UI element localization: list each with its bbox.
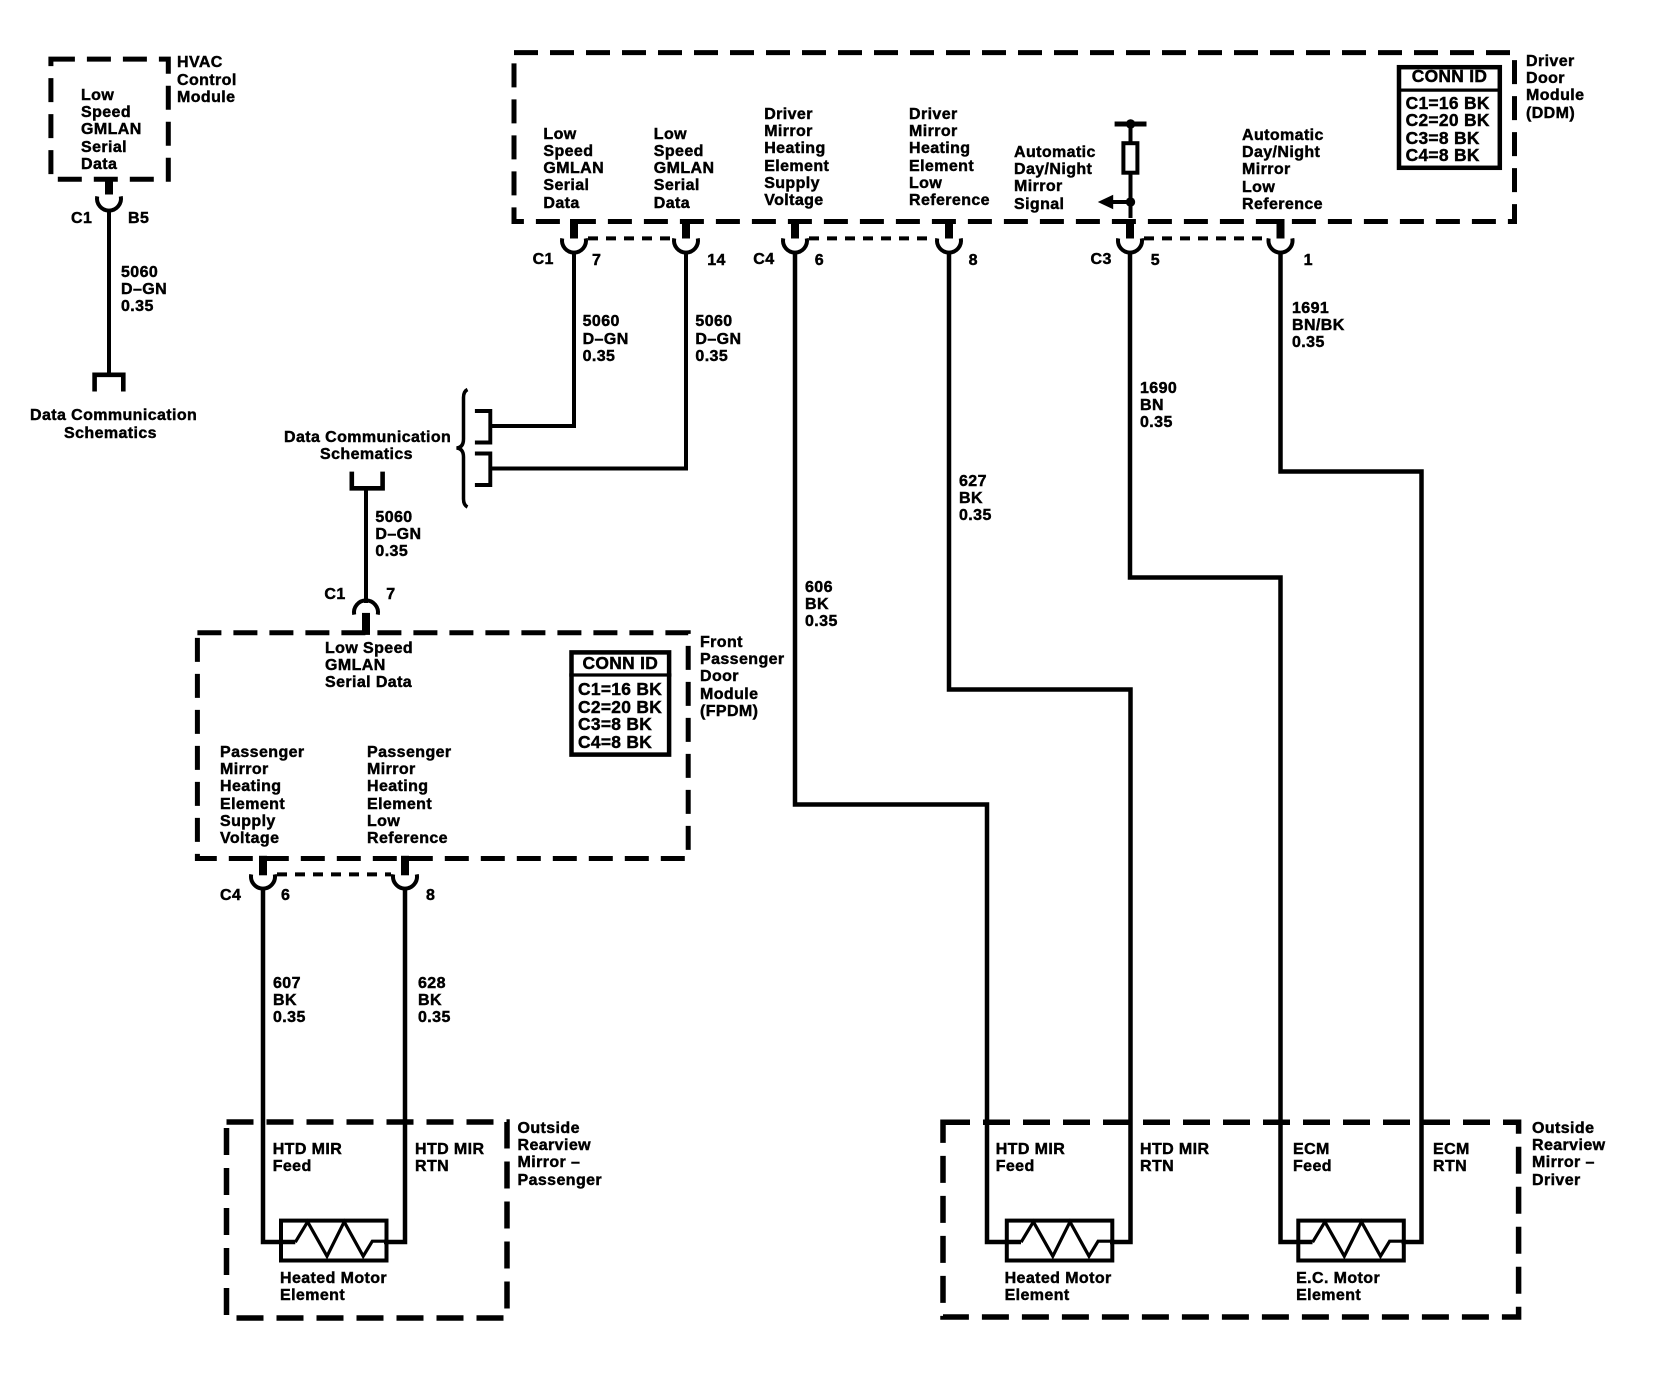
wire 5060 D-GN from off-page symbol to FPDM C1-7 [364, 490, 368, 603]
Outside Rearview Mirror - Passenger title [518, 1120, 603, 1189]
driver mirror label HTD MIR RTN [1140, 1141, 1209, 1176]
FPDM CONN ID title [569, 655, 671, 673]
DDM pin label 14 [707, 252, 726, 269]
wire label 627 BK 0.35 [959, 473, 992, 525]
DDM pin label C4 [753, 251, 774, 268]
wire label 5060 D-GN 0.35 (DDM C1-7) [583, 313, 629, 365]
E.C. motor element (driver) zigzag [1313, 1222, 1406, 1256]
wire from resistor to signal junction [1129, 172, 1133, 218]
passenger mirror label HTD MIR RTN [415, 1141, 484, 1176]
DDM internal label: Low Speed GMLAN Serial Data (C1-14) [654, 126, 715, 212]
passenger mirror label HTD MIR Feed [273, 1141, 342, 1176]
FPDM pin label C1 [324, 586, 345, 603]
HVAC connector C1 pin B5 arc [97, 196, 121, 210]
bracket terminal 2 (to DDM C1-14) [475, 454, 490, 486]
Heated Motor Element label (driver) [1005, 1270, 1112, 1305]
DDM pin label C1 [533, 251, 554, 268]
DDM pin label 8 [969, 252, 978, 269]
wire 607 BK from FPDM C4-6 to passenger mirror HTD MIR Feed [263, 887, 295, 1242]
DDM CONN ID title [1397, 68, 1502, 86]
FPDM title: Front Passenger Door Module (FPDM) [700, 634, 785, 720]
HVAC Control Module title [177, 54, 237, 106]
FPDM internal label: Passenger Mirror Heating Element Low Reference [367, 744, 452, 848]
wire 606 BK from DDM C4-6 to driver mirror HTD MIR Feed [795, 251, 1021, 1242]
driver mirror label ECM RTN [1433, 1141, 1470, 1176]
DDM pin label 1 [1304, 252, 1313, 269]
DDM connector C1 body dashed line [588, 236, 670, 240]
FPDM pin label 8 [426, 887, 435, 904]
Outside Rearview Mirror - Passenger box (dashed) [227, 1122, 508, 1318]
FPDM connector C4 body dashed line [277, 872, 391, 876]
DDM connector C3 pin 1 stub [1277, 219, 1285, 239]
junction dot at mirror signal tap [1126, 197, 1135, 206]
FPDM pin label 6 [281, 887, 290, 904]
wire 5060 D-GN from DDM C1-14 to bracket 2 [491, 251, 687, 469]
DDM title: Driver Door Module (DDM) [1526, 53, 1584, 122]
off-page symbol (Data Communication Schematics, left) [95, 375, 124, 392]
driver mirror label HTD MIR Feed [996, 1141, 1065, 1176]
E.C. Motor Element label (driver) [1296, 1270, 1380, 1305]
DDM connector C4 pin 6 stub [791, 219, 799, 239]
FPDM connector C1 pin 7 stub [362, 613, 370, 635]
DDM internal label: Automatic Day/Night Mirror Low Reference [1242, 127, 1324, 213]
DDM connector C3 pin 5 stub [1126, 219, 1134, 239]
wire 1691 BN/BK from DDM C3-1 to driver mirror ECM RTN [1281, 251, 1422, 1242]
DDM connector C3 pin 1 arc [1269, 238, 1293, 252]
DDM connector C3 pin 5 arc [1118, 238, 1142, 252]
DDM CONN ID table frame [1397, 67, 1502, 168]
bracket terminal 1 (to DDM C1-7) [475, 411, 490, 443]
DDM internal label: Automatic Day/Night Mirror Signal [1014, 144, 1096, 213]
Driver Door Module (DDM) box (dashed) [514, 53, 1515, 222]
DDM connector C1 pin 7 stub [570, 219, 578, 239]
DDM internal label: Driver Mirror Heating Element Low Reference [909, 106, 990, 210]
DDM connector C1 pin 14 stub [682, 219, 690, 239]
Data Communication Schematics label (left) [30, 407, 191, 442]
FPDM pin label 7 [386, 586, 395, 603]
resistor (auto day/night mirror) in DDM [1123, 143, 1137, 173]
Heated Motor Element label (passenger) [280, 1270, 387, 1305]
wire label 5060 D-GN 0.35 (FPDM) [375, 509, 421, 561]
FPDM connector C4 pin 8 arc [393, 874, 417, 888]
DDM internal label: Low Speed GMLAN Serial Data (C1-7) [543, 126, 604, 212]
junction dot on node bar [1126, 119, 1135, 128]
E.C. motor element (driver) box [1298, 1221, 1404, 1261]
wire 1690 BN from DDM C3-5 to driver mirror ECM Feed [1130, 251, 1313, 1242]
DDM pin label 7 [592, 252, 601, 269]
HVAC pin label C1 [71, 210, 92, 227]
DDM connector C4 pin 8 stub [945, 219, 953, 239]
FPDM internal label: Low Speed GMLAN Serial Data [325, 640, 413, 692]
wire from node bar to resistor [1129, 126, 1133, 143]
mirror signal arrow line [1110, 200, 1131, 204]
wire 627 BK from DDM C4-8 to driver mirror HTD MIR RTN [949, 251, 1131, 1242]
DDM connector C3 body dashed line [1144, 236, 1267, 240]
DDM pin label 6 [815, 252, 824, 269]
DDM connector C1 pin 14 arc [674, 238, 698, 252]
DDM internal node bar [1115, 122, 1147, 127]
HVAC connector C1 pin B5 stub [105, 179, 113, 195]
wire 628 BK from FPDM C4-8 to passenger mirror HTD MIR RTN [384, 887, 405, 1242]
FPDM internal label: Passenger Mirror Heating Element Supply Voltage [220, 744, 305, 848]
Data Communication Schematics label (center) [284, 429, 449, 464]
heated motor element (driver) zigzag [1021, 1222, 1114, 1256]
Front Passenger Door Module (FPDM) box (dashed) [197, 633, 688, 859]
HVAC internal label: Low Speed GMLAN Serial Data [81, 87, 142, 173]
wire 5060 D-GN from DDM C1-7 to bracket 1 [491, 251, 575, 426]
wire label 606 BK 0.35 [805, 579, 838, 631]
HVAC Control Module box (dashed) [51, 59, 168, 179]
mirror signal arrowhead [1098, 195, 1113, 209]
wire label 1690 BN 0.35 [1140, 380, 1177, 432]
FPDM CONN ID rows [578, 681, 662, 751]
DDM pin label 5 [1151, 252, 1160, 269]
DDM CONN ID rows [1406, 95, 1490, 165]
FPDM pin label C4 [220, 887, 241, 904]
FPDM connector C4 pin 6 stub [259, 856, 267, 876]
DDM connector C1 pin 7 arc [562, 238, 586, 252]
DDM internal label: Driver Mirror Heating Element Supply Voltage [764, 106, 829, 210]
DDM connector C4 pin 6 arc [783, 238, 807, 252]
FPDM connector C4 pin 6 arc [251, 874, 275, 888]
brace for data communication schematics [457, 390, 468, 508]
FPDM connector C4 pin 8 stub [401, 856, 409, 876]
DDM connector C4 pin 8 arc [937, 238, 961, 252]
wire label 628 BK 0.35 [418, 975, 451, 1027]
off-page symbol (Data Communication Schematics, center) [352, 472, 383, 489]
DDM connector C4 body dashed line [809, 236, 935, 240]
wire 5060 D-GN from HVAC C1-B5 to off-page symbol [107, 209, 111, 373]
heated motor element (passenger) zigzag [295, 1222, 388, 1256]
Outside Rearview Mirror - Driver title [1532, 1120, 1605, 1189]
Outside Rearview Mirror - Driver box (dashed) [943, 1122, 1519, 1317]
HVAC pin label B5 [128, 210, 149, 227]
heated motor element (driver) box [1007, 1221, 1113, 1261]
driver mirror label ECM Feed [1293, 1141, 1332, 1176]
FPDM connector C1 pin 7 arc (dome) [354, 600, 378, 614]
wire label 5060 D-GN 0.35 (DDM C1-14) [695, 313, 741, 365]
DDM pin label C3 [1091, 251, 1112, 268]
FPDM CONN ID table frame [569, 652, 671, 754]
wire label 5060 D-GN 0.35 (HVAC) [121, 264, 167, 316]
wire label 1691 BN/BK 0.35 [1292, 300, 1345, 352]
wire label 607 BK 0.35 [273, 975, 306, 1027]
heated motor element (passenger) box [281, 1221, 387, 1261]
